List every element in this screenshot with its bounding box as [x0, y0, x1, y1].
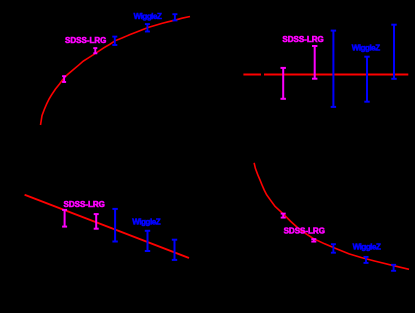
svg-text:SDSS-LRG: SDSS-LRG: [282, 35, 323, 44]
svg-text:WiggleZ: WiggleZ: [353, 242, 381, 251]
svg-text:SDSS-LRG: SDSS-LRG: [65, 36, 106, 45]
svg-text:WiggleZ: WiggleZ: [132, 218, 160, 227]
svg-text:WiggleZ: WiggleZ: [352, 43, 380, 52]
svg-text:SDSS-LRG: SDSS-LRG: [284, 226, 325, 235]
svg-text:SDSS-LRG: SDSS-LRG: [64, 200, 105, 209]
svg-text:WiggleZ: WiggleZ: [134, 12, 162, 21]
